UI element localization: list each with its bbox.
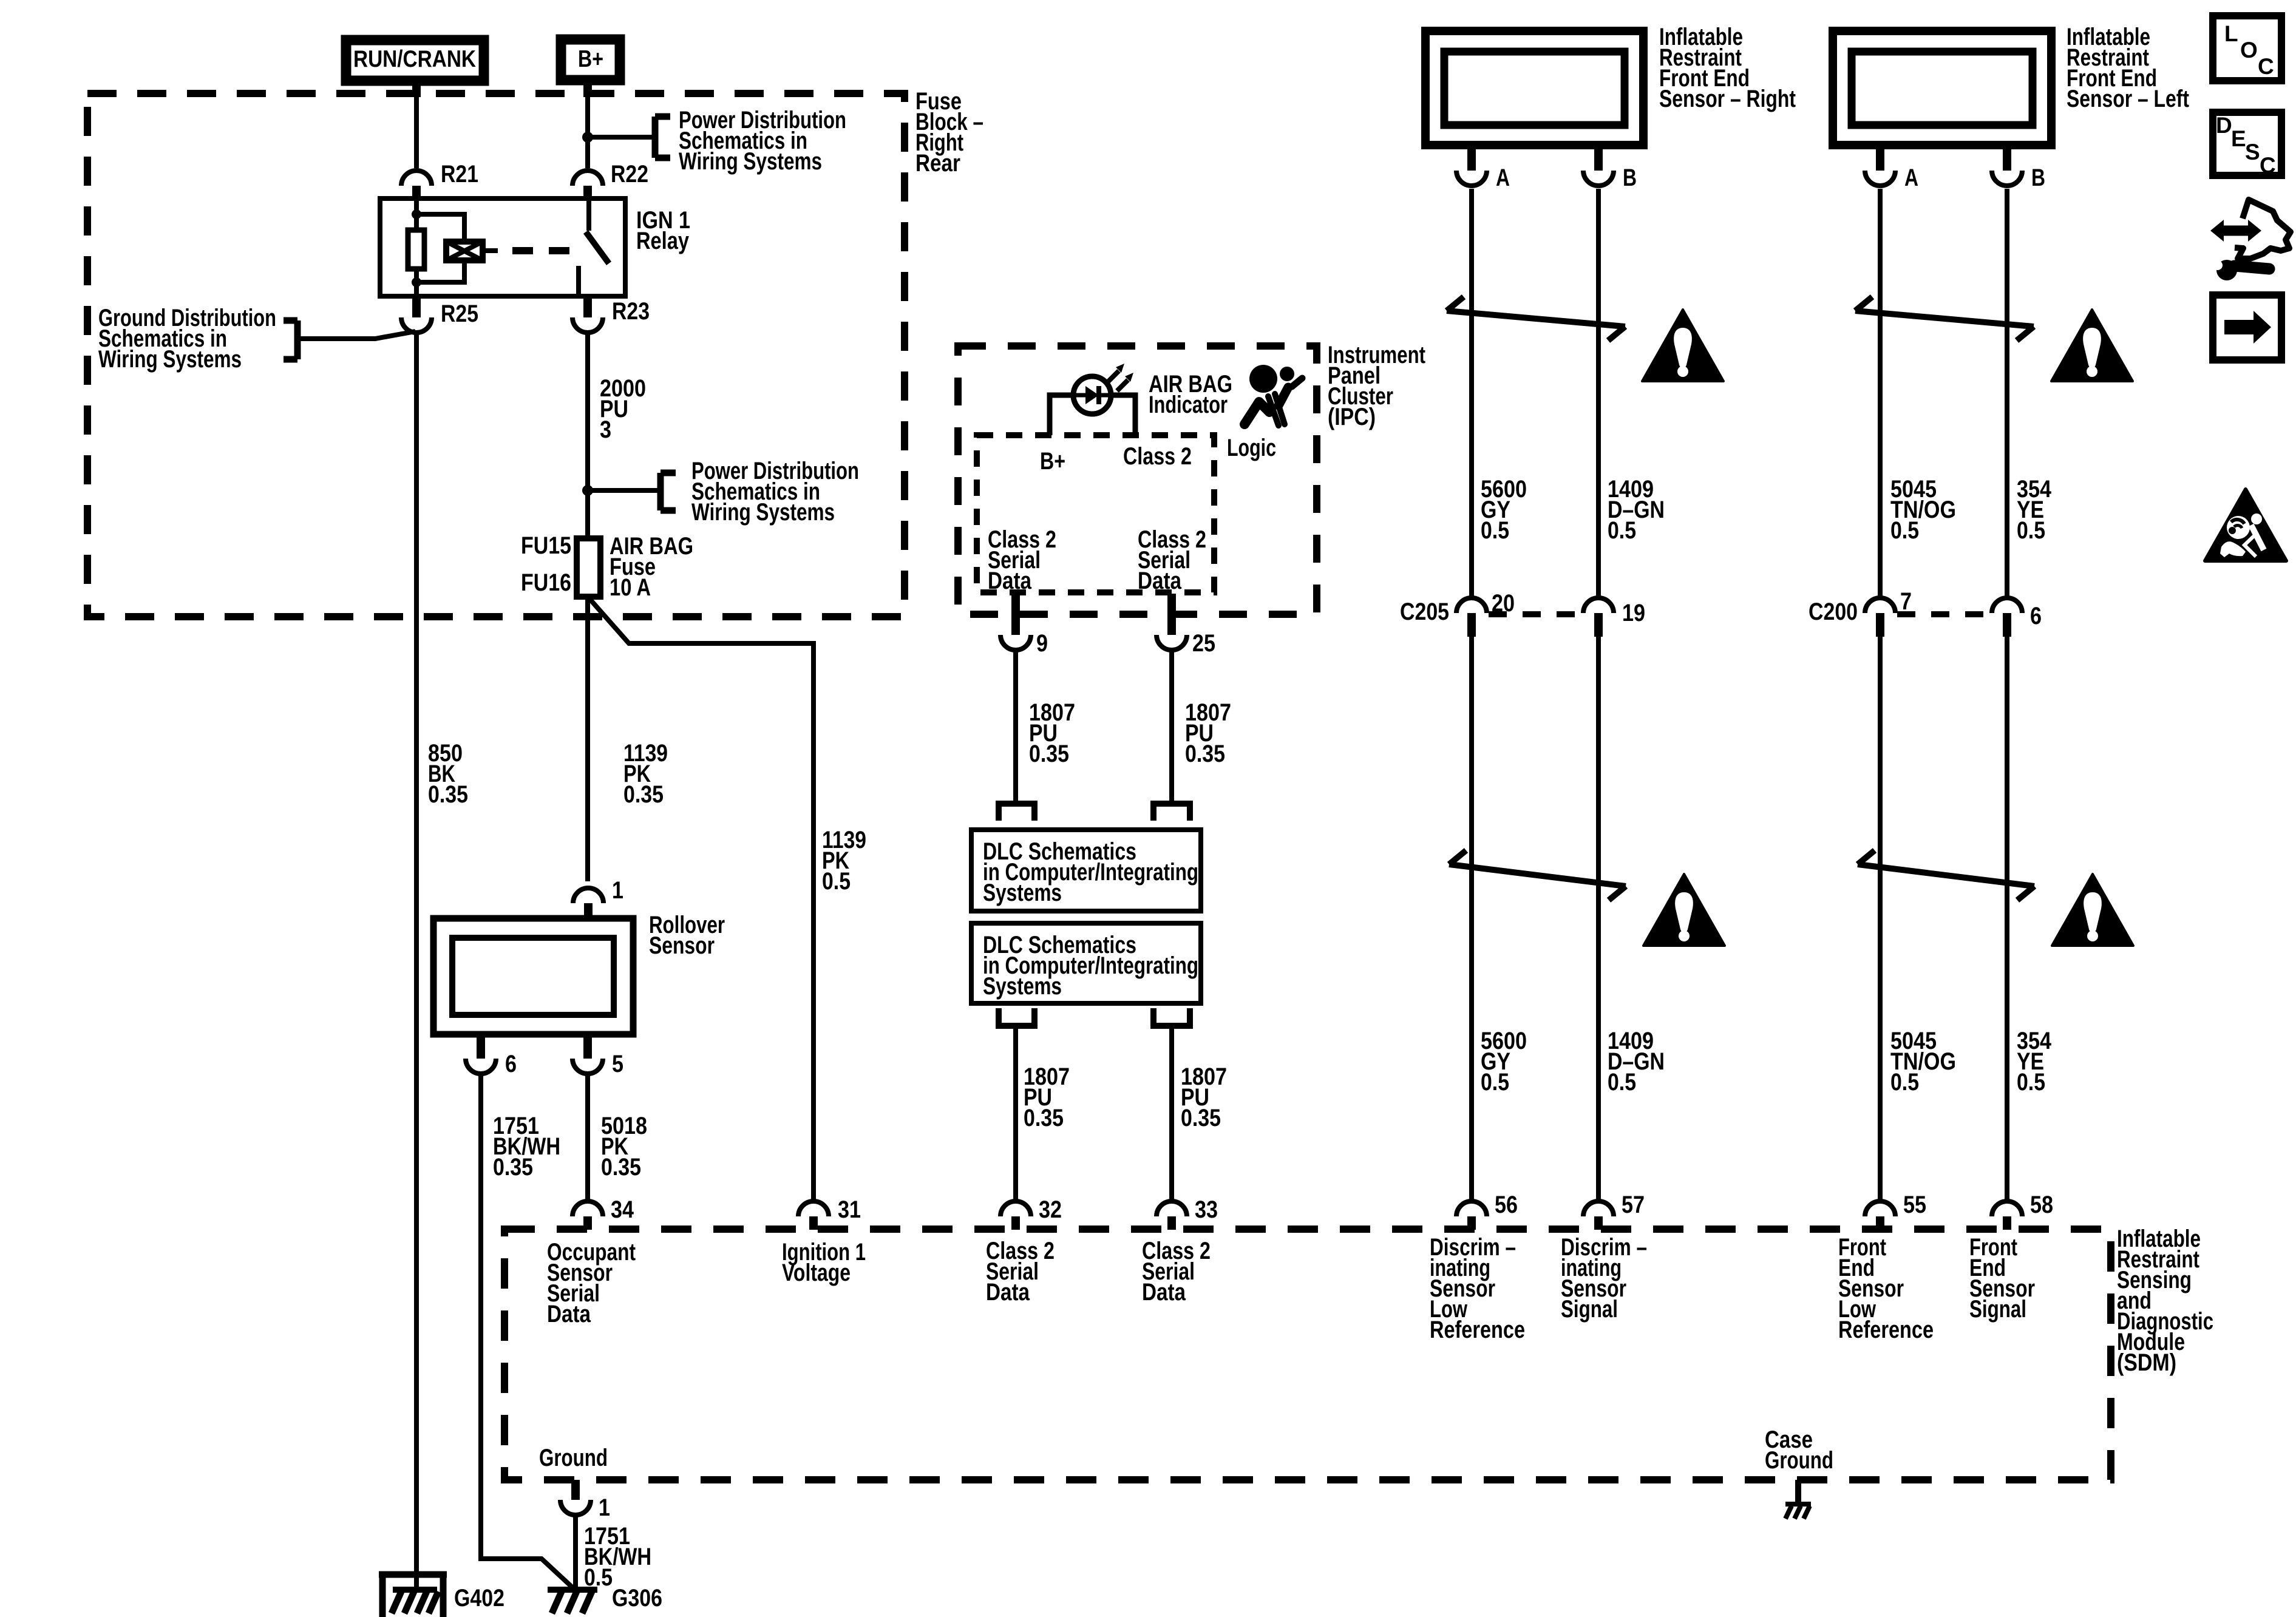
icon forward arrow box xyxy=(2213,295,2281,360)
DLC schematics box 1 xyxy=(971,830,1201,911)
label Discriminating Sensor Signal xyxy=(1561,1234,1647,1323)
label Ignition 1 Voltage xyxy=(782,1239,866,1286)
svg-text:B+: B+ xyxy=(1040,448,1065,475)
connector pin 9 IPC xyxy=(1000,594,1048,657)
IPC logic dashed box xyxy=(977,435,1214,592)
junction to power distribution note 2 xyxy=(582,485,593,496)
svg-text:Wiring Systems: Wiring Systems xyxy=(691,499,835,526)
svg-text:A: A xyxy=(1904,164,1918,191)
svg-text:Relay: Relay xyxy=(636,228,690,254)
relay coil (solenoid X-box) xyxy=(446,242,483,260)
label 1409 D-GN 0.5 (lower) xyxy=(1608,1028,1665,1096)
svg-text:6: 6 xyxy=(2030,603,2042,629)
inflatable restraint front end sensor - left box xyxy=(1833,31,2051,145)
label AIR BAG Indicator xyxy=(1149,371,1232,418)
relay actuator dashed link xyxy=(512,247,576,254)
svg-text:0.35: 0.35 xyxy=(623,781,664,808)
label 1139 PK 0.35 xyxy=(623,740,668,808)
svg-text:19: 19 xyxy=(1622,600,1645,626)
svg-text:0.5: 0.5 xyxy=(1608,1069,1636,1096)
svg-text:Data: Data xyxy=(986,1279,1030,1306)
DLC bracket upper-right xyxy=(1153,804,1190,821)
wire 1139 PK 0.5 to SDM pin 31 xyxy=(588,597,813,1201)
svg-text:Ground: Ground xyxy=(539,1445,608,1471)
svg-text:E: E xyxy=(2231,126,2246,151)
wire B+ to R22 xyxy=(585,85,590,168)
connector R23 (relay switch out) xyxy=(572,296,650,333)
svg-text:Data: Data xyxy=(547,1301,591,1327)
label 5045 TN/OG 0.5 (lower) xyxy=(1890,1028,1956,1096)
svg-text:B: B xyxy=(1623,164,1637,191)
label 1807 PU 0.35 (lower left) xyxy=(1024,1063,1070,1131)
connector SDM pin 34 xyxy=(572,1196,634,1230)
svg-text:58: 58 xyxy=(2030,1192,2053,1218)
connector R21 (relay coil +) xyxy=(401,161,478,199)
connector R22 (relay switch B+) xyxy=(572,161,648,199)
wire 5018 PK 0.35 to SDM pin 34 xyxy=(585,1074,590,1201)
label AIR BAG Fuse 10 A xyxy=(610,533,693,601)
svg-text:S: S xyxy=(2245,140,2260,164)
off-page arrow right pair upper xyxy=(1447,297,1625,341)
label 5600 GY 0.5 (lower) xyxy=(1481,1028,1527,1096)
ground G402 xyxy=(379,1575,447,1617)
label 354 YE 0.5 (lower) xyxy=(2017,1028,2052,1096)
connector SDM pin 57 xyxy=(1583,1192,1645,1230)
label Class 2 (logic) xyxy=(1123,443,1192,470)
wire 5045 TN/OG 0.5 (sensor left A to C200) xyxy=(1878,189,1883,598)
svg-text:Class 2: Class 2 xyxy=(1123,443,1192,470)
connector C205 pin 19 xyxy=(1583,598,1645,637)
wire 1409 D-GN 0.5 (C205 to SDM pin 57) xyxy=(1596,637,1601,1201)
label 5045 TN/OG 0.5 (upper) xyxy=(1890,476,1956,544)
instrument panel cluster dashed box xyxy=(958,346,1317,614)
label 1807 PU 0.35 (upper left) xyxy=(1029,699,1075,767)
svg-text:Wiring Systems: Wiring Systems xyxy=(98,346,242,373)
connector C205 pin 20 xyxy=(1400,590,1515,637)
label front end sensor right xyxy=(1659,24,1796,112)
svg-text:1: 1 xyxy=(612,877,623,904)
relay IGN 1 box xyxy=(380,198,625,296)
wire 5045 TN/OG 0.5 (C200 to SDM pin 55) xyxy=(1878,637,1883,1201)
svg-text:O: O xyxy=(2240,38,2258,63)
svg-text:55: 55 xyxy=(1903,1192,1926,1218)
wire RUN/CRANK to R21 xyxy=(414,85,419,168)
svg-text:1: 1 xyxy=(599,1494,610,1521)
svg-text:33: 33 xyxy=(1195,1196,1218,1223)
wire 1409 D-GN 0.5 (sensor right B to C205) xyxy=(1596,189,1601,598)
label 1751 BK/WH 0.5 xyxy=(584,1523,651,1591)
svg-text:Reference: Reference xyxy=(1838,1317,1934,1343)
label 5600 GY 0.5 (upper) xyxy=(1481,476,1527,544)
off-page arrow left pair lower xyxy=(1858,850,2034,900)
label FU15 xyxy=(521,532,571,559)
label Front End Sensor Signal xyxy=(1969,1234,2035,1323)
svg-text:C200: C200 xyxy=(1809,598,1858,625)
connector SDM pin 32 xyxy=(1000,1196,1062,1230)
svg-text:6: 6 xyxy=(505,1051,517,1077)
svg-text:Data: Data xyxy=(1138,568,1182,594)
icon DESC box xyxy=(2213,112,2281,178)
connector pin A sensor left xyxy=(1865,149,1918,191)
svg-text:Reference: Reference xyxy=(1430,1317,1525,1343)
connector pin 5 rollover sensor xyxy=(572,1037,623,1077)
connector pin 6 rollover sensor xyxy=(466,1037,517,1077)
icon airbag caution triangle xyxy=(2205,489,2286,561)
svg-text:(SDM): (SDM) xyxy=(2117,1349,2176,1376)
label IGN 1 Relay xyxy=(636,207,690,254)
connector pin A sensor right xyxy=(1456,149,1510,191)
wire 1807 PU 0.35 (DLC to SDM pin 32) xyxy=(1013,1026,1018,1201)
label power distribution note 1 xyxy=(679,107,846,175)
label Front End Sensor Low Reference xyxy=(1838,1234,1934,1343)
svg-text:0.5: 0.5 xyxy=(822,868,851,895)
wire 1751 BK/WH 0.5 to G306 xyxy=(573,1515,578,1590)
label 850 BK 0.35 xyxy=(428,740,468,808)
pointer bracket: power distribution note 2 xyxy=(661,473,676,510)
wire junction to power distribution note 2 xyxy=(588,488,661,493)
svg-text:Voltage: Voltage xyxy=(782,1259,851,1286)
connector pin 1 rollover sensor xyxy=(573,877,623,917)
svg-text:RUN/CRANK: RUN/CRANK xyxy=(353,46,476,72)
junction on B+ wire xyxy=(582,132,593,143)
connector SDM ground pin 1 xyxy=(560,1480,610,1521)
svg-text:Sensor: Sensor xyxy=(649,932,715,959)
DLC bracket lower-right xyxy=(1153,1008,1190,1026)
svg-text:34: 34 xyxy=(611,1196,634,1223)
junction relay coil top xyxy=(412,209,421,219)
svg-text:B: B xyxy=(2031,164,2045,191)
label 1807 PU 0.35 (lower right) xyxy=(1181,1063,1227,1131)
power feed terminal RUN/CRANK xyxy=(346,40,484,81)
pointer bracket: power distribution note 1 xyxy=(655,117,670,158)
svg-text:0.5: 0.5 xyxy=(2017,517,2045,544)
inflatable restraint front end sensor - right box xyxy=(1425,31,1643,145)
svg-text:Signal: Signal xyxy=(1969,1296,2026,1323)
label 1807 PU 0.35 (upper right) xyxy=(1185,699,1231,767)
air bag indicator LED xyxy=(1050,364,1135,435)
wire 1807 PU 0.35 (pin 25 to DLC) xyxy=(1169,650,1174,804)
wire 2000 PU 3 xyxy=(585,333,590,538)
DLC bracket lower-left xyxy=(999,1008,1034,1026)
svg-text:7: 7 xyxy=(1900,588,1912,615)
power feed terminal B+ xyxy=(561,39,620,80)
label 1751 BK/WH 0.35 xyxy=(493,1113,560,1181)
svg-text:FU16: FU16 xyxy=(521,569,571,596)
label B+ (logic) xyxy=(1040,448,1065,475)
svg-text:0.35: 0.35 xyxy=(1029,741,1069,767)
svg-text:C205: C205 xyxy=(1400,598,1449,625)
label 354 YE 0.5 (upper) xyxy=(2017,476,2052,544)
wire 1751 BK/WH 0.35 to G306 xyxy=(481,1074,575,1590)
connector pin 25 IPC xyxy=(1156,594,1215,657)
svg-text:G306: G306 xyxy=(612,1585,662,1612)
svg-text:0.35: 0.35 xyxy=(493,1154,533,1181)
junction relay coil bottom xyxy=(412,277,421,287)
svg-text:Logic: Logic xyxy=(1227,435,1276,461)
off-page arrow left pair upper xyxy=(1855,297,2034,341)
DLC schematics box 2 xyxy=(971,923,1201,1003)
label Class 2 Serial Data (SDM pin 33) xyxy=(1142,1238,1211,1306)
svg-text:0.5: 0.5 xyxy=(2017,1069,2045,1096)
svg-text:3: 3 xyxy=(600,416,611,443)
wire relay coil parallel branch xyxy=(416,214,464,282)
svg-text:C: C xyxy=(2260,153,2276,178)
pin stub under RUN/CRANK xyxy=(412,85,421,97)
fuse block dashed box (Fuse Block - Right Rear) xyxy=(87,93,905,617)
pointer bracket: ground distribution note xyxy=(284,320,297,359)
svg-text:Indicator: Indicator xyxy=(1149,392,1228,418)
svg-text:Data: Data xyxy=(1142,1279,1186,1306)
wire junction to power distribution note 1 xyxy=(588,135,655,140)
label Case Ground xyxy=(1765,1426,1833,1474)
connector C200 pin 6 xyxy=(1992,598,2042,637)
warning triangle left pair upper xyxy=(2051,310,2133,381)
label power distribution note 2 xyxy=(691,458,859,526)
wire 1807 PU 0.35 (DLC to SDM pin 33) xyxy=(1169,1026,1174,1201)
wire 5600 GY 0.5 (C205 to SDM pin 56) xyxy=(1469,637,1474,1201)
label DLC schematics 1 xyxy=(983,838,1198,906)
connector R25 (relay coil -) xyxy=(401,296,478,333)
connector C200 pin 7 xyxy=(1809,588,1912,637)
svg-text:32: 32 xyxy=(1039,1196,1062,1223)
relay switch xyxy=(579,198,609,296)
C205 dashed connector line xyxy=(1489,611,1582,617)
svg-text:0.35: 0.35 xyxy=(428,781,468,808)
svg-text:Signal: Signal xyxy=(1561,1296,1618,1323)
label SDM xyxy=(2117,1225,2213,1376)
connector pin B sensor right xyxy=(1583,149,1637,191)
svg-text:L: L xyxy=(2224,21,2238,46)
label G402 xyxy=(454,1585,504,1612)
wire 354 YE 0.5 (sensor left B to C200) xyxy=(2005,189,2009,598)
icon LOC box xyxy=(2213,16,2281,81)
warning triangle right pair lower xyxy=(1643,874,1725,946)
label FU16 xyxy=(521,569,571,596)
svg-text:57: 57 xyxy=(1622,1192,1645,1218)
label G306 xyxy=(612,1585,662,1612)
SDM dashed box (Inflatable Restraint Sensing and Diagnostic Module) xyxy=(504,1229,2111,1480)
svg-text:0.5: 0.5 xyxy=(1608,517,1636,544)
svg-text:Wiring Systems: Wiring Systems xyxy=(679,148,822,175)
label Discriminating Sensor Low Reference xyxy=(1430,1234,1525,1343)
label 5018 PK 0.35 xyxy=(601,1113,647,1181)
label Class 2 Serial Data (IPC left) xyxy=(988,526,1056,594)
svg-text:25: 25 xyxy=(1192,630,1215,657)
svg-text:0.35: 0.35 xyxy=(1181,1105,1221,1131)
svg-text:R22: R22 xyxy=(611,161,648,188)
wire relay coil branch xyxy=(414,198,419,296)
label 1409 D-GN 0.5 (upper) xyxy=(1608,476,1665,544)
svg-text:0.5: 0.5 xyxy=(1890,517,1919,544)
svg-text:0.35: 0.35 xyxy=(1024,1105,1064,1131)
airbag SRS icon xyxy=(1245,365,1302,425)
svg-text:Data: Data xyxy=(988,568,1032,594)
connector SDM pin 55 xyxy=(1865,1192,1926,1230)
svg-text:Rear: Rear xyxy=(915,150,960,177)
svg-text:C: C xyxy=(2258,54,2274,79)
svg-text:B+: B+ xyxy=(578,46,603,72)
svg-text:D: D xyxy=(2216,113,2232,138)
svg-text:R21: R21 xyxy=(441,161,478,188)
label Class 2 Serial Data (SDM pin 32) xyxy=(986,1238,1055,1306)
label DLC schematics 2 xyxy=(983,932,1198,1000)
connector SDM pin 33 xyxy=(1156,1196,1218,1230)
connector SDM pin 56 xyxy=(1456,1192,1518,1230)
warning triangle left pair lower xyxy=(2052,874,2133,946)
pin stub under B+ xyxy=(583,85,592,97)
svg-text:0.5: 0.5 xyxy=(1481,517,1509,544)
off-page arrow right pair lower xyxy=(1449,850,1626,900)
connector pin B sensor left xyxy=(1992,149,2045,191)
DLC bracket upper-left xyxy=(999,804,1034,821)
svg-text:FU15: FU15 xyxy=(521,532,571,559)
svg-text:56: 56 xyxy=(1495,1192,1518,1218)
label Instrument Panel Cluster (IPC) xyxy=(1328,342,1425,430)
svg-text:0.5: 0.5 xyxy=(1481,1069,1509,1096)
case ground symbol xyxy=(1785,1480,1811,1519)
wire 1807 PU 0.35 (pin 9 to DLC) xyxy=(1013,650,1018,804)
wire 1139 PK 0.35 to rollover sensor xyxy=(585,597,590,881)
wire 354 YE 0.5 (C200 to SDM pin 58) xyxy=(2005,637,2009,1201)
svg-text:0.5: 0.5 xyxy=(1890,1069,1919,1096)
svg-text:9: 9 xyxy=(1036,630,1048,657)
svg-text:Ground: Ground xyxy=(1765,1447,1833,1474)
svg-text:R23: R23 xyxy=(612,298,650,325)
svg-text:R25: R25 xyxy=(441,300,478,327)
svg-text:G402: G402 xyxy=(454,1585,504,1612)
warning triangle right pair upper xyxy=(1642,310,1724,381)
svg-text:0.35: 0.35 xyxy=(601,1154,641,1181)
label Logic xyxy=(1227,435,1276,461)
rollover sensor box xyxy=(433,918,633,1034)
label Fuse Block - Right Rear xyxy=(915,88,983,177)
relay coil resistor xyxy=(408,230,424,269)
wire 850 BK 0.35 xyxy=(414,333,419,1590)
svg-text:10 A: 10 A xyxy=(610,574,651,601)
label Ground (SDM) xyxy=(539,1445,608,1471)
label Rollover Sensor xyxy=(649,912,725,959)
label front end sensor left xyxy=(2067,24,2189,112)
label ground distribution note xyxy=(98,305,276,373)
wire 5600 GY 0.5 (sensor right A to C205) xyxy=(1469,189,1474,598)
ground G306 xyxy=(548,1590,597,1613)
svg-text:Systems: Systems xyxy=(983,880,1062,906)
svg-text:Sensor – Right: Sensor – Right xyxy=(1659,86,1796,112)
connector SDM pin 31 xyxy=(798,1196,861,1230)
svg-text:(IPC): (IPC) xyxy=(1328,404,1376,430)
svg-text:Systems: Systems xyxy=(983,973,1062,1000)
svg-text:Sensor – Left: Sensor – Left xyxy=(2067,86,2189,112)
svg-text:5: 5 xyxy=(612,1051,623,1077)
label Class 2 Serial Data (IPC right) xyxy=(1138,526,1206,594)
label Occupant Sensor Serial Data xyxy=(547,1239,636,1327)
label 1139 PK 0.5 xyxy=(822,827,866,895)
C200 dashed connector line xyxy=(1897,611,1991,617)
svg-text:0.35: 0.35 xyxy=(1185,741,1225,767)
svg-text:A: A xyxy=(1496,164,1510,191)
icon service/repair (arrow + wrench) xyxy=(2210,200,2291,280)
fuse FU15/FU16 AIR BAG 10 A xyxy=(577,538,600,597)
wire coil to actuator xyxy=(485,248,498,253)
label 2000 PU 3 xyxy=(600,375,646,443)
wire pointer to R25 wire xyxy=(297,331,415,339)
connector SDM pin 58 xyxy=(1992,1192,2053,1230)
svg-text:31: 31 xyxy=(838,1196,861,1223)
